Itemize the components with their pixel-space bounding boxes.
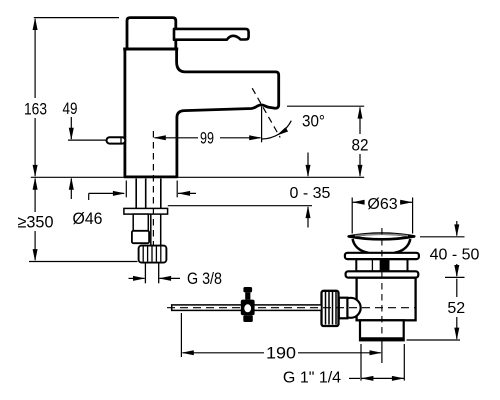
svg-text:G 3/8: G 3/8 (187, 269, 222, 288)
svg-text:40 - 50: 40 - 50 (430, 247, 480, 264)
svg-text:99: 99 (200, 129, 214, 148)
svg-text:Ø63: Ø63 (367, 196, 397, 213)
svg-text:49: 49 (63, 99, 78, 118)
svg-text:30°: 30° (302, 112, 325, 131)
svg-text:82: 82 (352, 136, 369, 155)
svg-text:G 1" 1/4: G 1" 1/4 (283, 370, 341, 387)
svg-text:≥350: ≥350 (18, 213, 54, 232)
svg-text:163: 163 (24, 100, 47, 119)
svg-text:52: 52 (447, 300, 465, 317)
svg-text:190: 190 (266, 344, 296, 363)
svg-text:0 - 35: 0 - 35 (290, 185, 331, 202)
svg-text:Ø46: Ø46 (73, 209, 103, 228)
